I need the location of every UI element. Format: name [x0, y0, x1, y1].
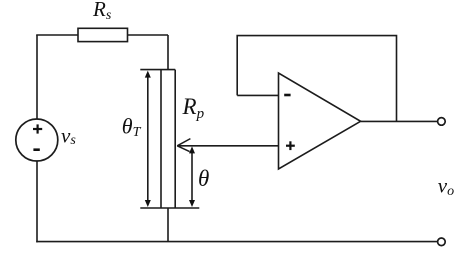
dimension tick top — [140, 69, 175, 71]
dimension arrow theta_T — [145, 71, 151, 207]
op-amp minus label — [284, 94, 290, 97]
wire op-amp output — [361, 120, 438, 122]
wire bottom horizontal — [36, 241, 438, 243]
potentiometer R_p body — [140, 70, 199, 208]
potentiometer wiper arrowhead — [177, 139, 190, 152]
op-amp plus label — [286, 141, 295, 150]
wire top left segment — [36, 34, 78, 36]
voltage source v_s — [16, 119, 58, 161]
svg-text:Rs: Rs — [92, 0, 112, 23]
resistor R_s — [78, 28, 128, 41]
svg-text:Rp: Rp — [182, 94, 205, 122]
wire left vertical bottom — [36, 161, 38, 242]
wire down to potentiometer top — [167, 35, 169, 70]
dimension arrow theta — [189, 146, 195, 207]
voltage source plus sign — [33, 124, 42, 133]
terminal node output top — [438, 118, 446, 126]
wire top right segment — [128, 34, 169, 36]
wire feedback loop — [237, 36, 396, 122]
wire potentiometer bottom to ground rail — [167, 208, 169, 242]
wire wiper to plus input — [177, 145, 278, 147]
terminal node output bottom — [438, 238, 446, 246]
wire left vertical top — [36, 35, 38, 119]
svg-text:vo: vo — [438, 174, 454, 199]
dimension tick bottom — [140, 207, 199, 209]
svg-text:θ: θ — [198, 166, 209, 191]
svg-text:vs: vs — [61, 123, 76, 148]
op-amp U1 — [279, 73, 361, 169]
wire op-amp minus input — [237, 94, 278, 96]
svg-text:θT: θT — [122, 114, 142, 140]
voltage source minus sign — [33, 148, 39, 151]
